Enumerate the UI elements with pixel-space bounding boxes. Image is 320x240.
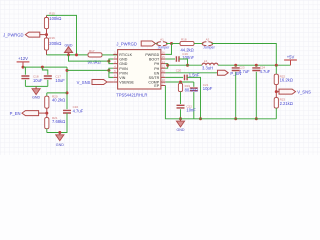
- svg-text:A2: A2: [206, 38, 210, 42]
- pin V_SNS to VSENSE pin: [107, 81, 113, 83]
- wire C18 top lead: [24, 67, 26, 75]
- svg-text:200kΩ: 200kΩ: [49, 41, 61, 46]
- op-amp U2 TPS54421RHLR body: [116, 50, 161, 98]
- pin R20-R21 node: [46, 108, 48, 117]
- junction comp gnd: [179, 117, 182, 120]
- port V_SNS right: [279, 89, 311, 95]
- svg-text:L2: L2: [204, 59, 208, 63]
- capacitor C22 10nF: [177, 104, 197, 112]
- wire to C21: [193, 82, 195, 87]
- junction PVIN feed: [66, 69, 69, 72]
- svg-text:10uF: 10uF: [55, 78, 65, 83]
- wire node to R18: [172, 43, 181, 45]
- inductor L2 3.3uH: [202, 59, 218, 70]
- svg-text:GND: GND: [177, 128, 185, 132]
- wire EN divider feed: [47, 92, 67, 94]
- wire output rail: [218, 64, 291, 66]
- junction J_PWRGD node: [45, 33, 48, 36]
- wire C19 to PH node: [179, 59, 188, 65]
- svg-text:16.2kΩ: 16.2kΩ: [280, 78, 293, 83]
- U2 pin 1 RT/CLK: [113, 51, 132, 57]
- ground comp GND: [176, 119, 184, 132]
- svg-text:3.3uH: 3.3uH: [202, 65, 213, 70]
- resistor R21 7.68k: [45, 116, 66, 129]
- svg-text:VIN: VIN: [119, 76, 125, 80]
- U2 pin 3 GND: [113, 60, 127, 66]
- wire C16 bottom lead: [47, 113, 67, 133]
- wire C17 top lead jog: [42, 67, 47, 75]
- wire PH to inductor: [168, 64, 202, 66]
- wire R20 top lead: [46, 93, 48, 96]
- junction rowA drop: [75, 53, 78, 56]
- svg-text:100kΩ: 100kΩ: [49, 16, 61, 21]
- svg-text:R18: R18: [181, 37, 187, 41]
- svg-text:GND: GND: [32, 95, 40, 99]
- port V_SNS left: [77, 80, 107, 86]
- pin R16 top lead: [46, 35, 48, 38]
- port J_PWRGD right: [116, 41, 155, 47]
- junction C23 gnd: [234, 117, 237, 120]
- capacitor C21 10pF: [190, 83, 213, 91]
- pin port to node: [40, 34, 47, 36]
- U2 pin 10 COMP: [148, 78, 165, 84]
- junction C24 gnd: [255, 117, 258, 120]
- wire R21 bottom to gnd rail: [46, 129, 48, 133]
- junction GND pins tie: [107, 60, 110, 63]
- wire R23 bottom to gnd rail: [275, 108, 277, 119]
- junction BOOT cap to PH: [186, 64, 189, 67]
- svg-text:90.9kΩ: 90.9kΩ: [88, 60, 101, 65]
- svg-text:EP: EP: [154, 84, 159, 88]
- wire +12V spine: [66, 67, 68, 109]
- wire SS/TR pin to C20: [165, 76, 183, 78]
- wire R22 top lead: [275, 65, 277, 74]
- svg-text:10nF: 10nF: [186, 108, 196, 113]
- capacitor C18 10uF: [21, 75, 43, 83]
- wire port to jumper A1: [155, 43, 157, 45]
- resistor R19 80.6k: [178, 83, 197, 92]
- svg-text:GND: GND: [65, 43, 73, 47]
- resistor R22 16.2k: [274, 74, 293, 84]
- junction PWRGD pullup node: [170, 42, 173, 45]
- wire gnd row to RT/CLK resistor: [47, 54, 89, 56]
- svg-text:4.7uF: 4.7uF: [73, 109, 84, 114]
- svg-text:GND: GND: [56, 143, 64, 147]
- svg-text:V_SNS: V_SNS: [77, 80, 91, 85]
- junction C24 tap: [255, 64, 258, 67]
- port J_PWRGD left: [3, 32, 40, 38]
- wire C20 to gnd drop: [187, 77, 200, 118]
- power +5V: [284, 54, 297, 65]
- svg-text:Jumper: Jumper: [203, 45, 216, 49]
- pin R16 bottom lead: [46, 50, 48, 55]
- junction PVIN tie: [107, 69, 110, 72]
- svg-text:TPS54421RHLR: TPS54421RHLR: [116, 92, 147, 97]
- wire R17 to RT/CLK pin: [102, 54, 118, 56]
- capacitor C20 1.5nF: [176, 69, 200, 81]
- junction P_EN node: [45, 112, 48, 115]
- junction C17 tap: [41, 66, 44, 69]
- svg-text:V_SNS: V_SNS: [297, 90, 311, 95]
- wire EP to gnd rail: [165, 86, 276, 119]
- wire C24 top lead: [255, 65, 257, 66]
- svg-text:7.68kΩ: 7.68kΩ: [52, 119, 65, 124]
- svg-text:40.2kΩ: 40.2kΩ: [52, 98, 65, 103]
- pin R22-R23 node: [275, 85, 277, 98]
- svg-text:SS/TR: SS/TR: [149, 76, 160, 80]
- wire node down to PWRGD pin: [165, 44, 171, 55]
- wire BOOT pin to C19: [165, 58, 175, 60]
- resistor R15 100k: [44, 12, 61, 29]
- wire C24 bottom lead: [255, 72, 257, 119]
- wire C22 bottom lead: [180, 109, 182, 119]
- junction PH tie: [166, 64, 169, 67]
- wire R19 to C22: [180, 92, 182, 104]
- svg-text:10pF: 10pF: [203, 86, 213, 91]
- capacitor C19 100nF: [176, 52, 194, 62]
- pin R15 bottom lead to node: [46, 29, 48, 35]
- U2 pin 4 PVIN: [113, 64, 128, 70]
- U2 pin 11 SS/TR: [149, 74, 166, 80]
- svg-text:A1: A1: [160, 38, 164, 42]
- svg-text:EN: EN: [154, 71, 159, 75]
- U2 pin 17 EP: [154, 82, 165, 88]
- ground input caps GND: [32, 86, 40, 99]
- svg-text:RT/CLK: RT/CLK: [119, 53, 132, 57]
- U2 pin 13 PH: [154, 64, 165, 70]
- resistor R16 200k: [44, 36, 61, 50]
- svg-text:GND: GND: [119, 62, 127, 66]
- junction V_SNS node: [275, 90, 278, 93]
- wire C23 top lead: [235, 65, 237, 66]
- svg-text:PVIN: PVIN: [119, 67, 128, 71]
- resistor R23 2.21k: [274, 98, 293, 109]
- svg-text:+12V: +12V: [18, 56, 28, 61]
- pin P_EN port to node: [39, 112, 47, 114]
- wire GND pin pair tie: [109, 59, 113, 64]
- wire C21 bottom lead: [193, 92, 195, 119]
- U2 pin 2 GND: [113, 55, 127, 61]
- wire PVIN feed to U2: [67, 69, 109, 71]
- wire row-A top of R15 to vertical drop: [47, 15, 77, 55]
- U2 pin 7 VSENSE: [113, 78, 134, 84]
- wire A2 to +5V rail drop: [212, 44, 277, 66]
- wire gnd feed to U2 GND pins: [69, 55, 109, 61]
- svg-text:BOOT: BOOT: [149, 58, 160, 62]
- wire C23 bottom lead: [235, 72, 237, 119]
- wire C18 bottom lead: [24, 80, 26, 87]
- svg-text:10uF: 10uF: [33, 78, 43, 83]
- svg-text:PH: PH: [154, 67, 159, 71]
- U2 pin 12 EN: [154, 69, 165, 75]
- svg-text:J_PWRGD: J_PWRGD: [3, 33, 23, 38]
- capacitor C16 4.7uF: [63, 105, 84, 113]
- jumper A2: [202, 38, 215, 50]
- svg-text:R17: R17: [89, 49, 95, 53]
- resistor R17 90.9k: [88, 49, 103, 65]
- wire PVIN VIN pin tie: [109, 68, 113, 77]
- U2 pin 15 BOOT: [149, 55, 165, 61]
- junction +12V stem: [22, 66, 25, 69]
- svg-text:R16: R16: [49, 36, 55, 40]
- wire +12V rail: [23, 66, 67, 68]
- wire COMP pin run: [165, 81, 193, 83]
- junction C23 tap: [234, 64, 237, 67]
- junction EN divider feed: [66, 91, 69, 94]
- svg-text:GND: GND: [119, 58, 127, 62]
- port P_EN right: [218, 70, 242, 76]
- svg-text:PH: PH: [154, 62, 159, 66]
- junction COMP comp node: [179, 81, 182, 84]
- svg-text:C20: C20: [176, 69, 182, 73]
- U2 pin 5 PVIN: [113, 69, 128, 75]
- junction divider gnd: [58, 131, 61, 134]
- svg-text:4.7uF: 4.7uF: [260, 69, 271, 74]
- junction SS drain gnd: [199, 117, 202, 120]
- resistor R20 40.2k: [45, 94, 66, 108]
- svg-text:P_EN: P_EN: [230, 71, 241, 76]
- pin node to V_SNS port: [276, 91, 279, 93]
- svg-text:PWRGD: PWRGD: [145, 53, 159, 57]
- U2 pin 6 VIN: [113, 74, 125, 80]
- wire PVIN2 stub: [109, 72, 113, 74]
- pin R15 top lead: [46, 15, 48, 17]
- svg-text:80.6kΩ: 80.6kΩ: [185, 87, 198, 92]
- wire PH pin pair tie: [165, 64, 167, 69]
- ground top GND symbol: [64, 43, 72, 55]
- capacitor C24 4.7uF: [252, 66, 270, 74]
- jumper A1: [157, 38, 170, 50]
- wire R19 top lead: [180, 82, 182, 83]
- svg-text:P_EN: P_EN: [10, 111, 21, 116]
- capacitor C17 10uF: [44, 75, 66, 83]
- ground divider GND: [56, 133, 64, 148]
- wire C17 bottom lead: [47, 80, 49, 87]
- svg-text:J_PWRGD: J_PWRGD: [116, 42, 136, 47]
- svg-text:PVIN: PVIN: [119, 71, 128, 75]
- wire EN pin to P_EN port: [165, 72, 217, 74]
- svg-text:+5V: +5V: [287, 54, 295, 59]
- U2 pin 16 PWRGD: [145, 51, 165, 57]
- power +12V: [17, 56, 30, 67]
- wire A1 to node: [166, 43, 172, 45]
- U2 pin 14 PH: [154, 60, 165, 66]
- svg-text:2.21kΩ: 2.21kΩ: [280, 101, 293, 106]
- svg-text:VSENSE: VSENSE: [119, 81, 134, 85]
- capacitor C23 4.7uF: [232, 66, 250, 74]
- junction divider tap: [275, 64, 278, 67]
- wire input cap gnd bar: [25, 85, 47, 87]
- wire R18 to jumper A2: [194, 43, 203, 45]
- resistor R18 44.2k: [180, 37, 194, 52]
- junction gnd arrow tap: [67, 53, 70, 56]
- port P_EN left: [10, 111, 39, 117]
- svg-text:Jumper: Jumper: [158, 45, 171, 49]
